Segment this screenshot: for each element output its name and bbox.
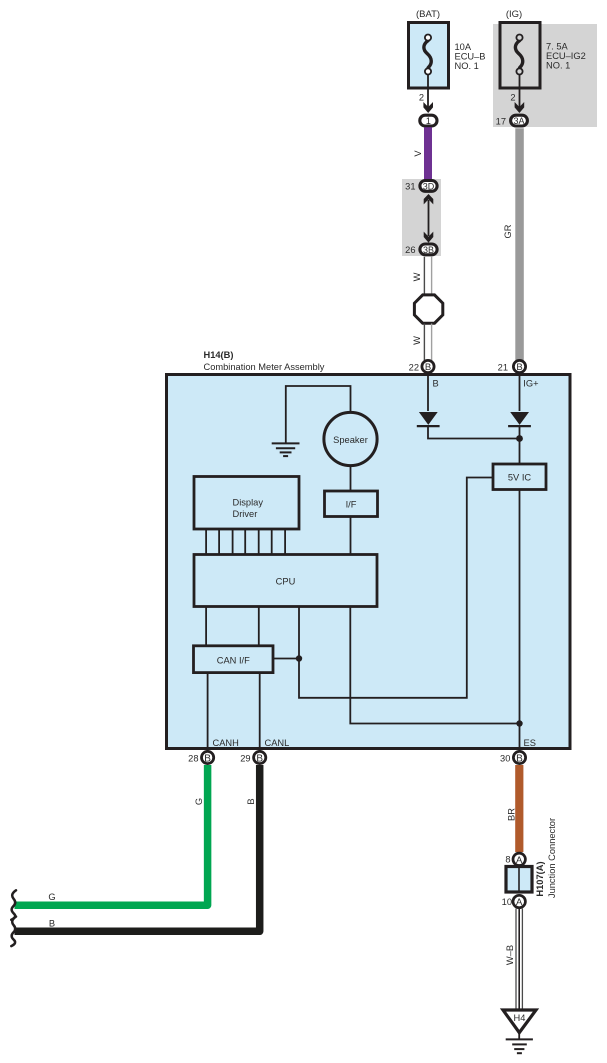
wire CAN I/F to pin 29 — [259, 673, 261, 751]
wire W (white) from 3B to octagon joint — [424, 257, 431, 296]
svg-text:GR: GR — [503, 224, 513, 238]
wire pin22 to diode D1 — [427, 374, 429, 411]
svg-text:G: G — [194, 798, 204, 805]
junction node J3 — [296, 655, 302, 661]
svg-text:A: A — [516, 855, 523, 866]
svg-text:W: W — [412, 336, 422, 345]
arrowhead down toward 3B — [424, 232, 434, 243]
diode D1 (from pin 22) — [417, 412, 440, 426]
svg-text:29: 29 — [240, 754, 250, 764]
svg-text:W: W — [412, 272, 422, 281]
svg-text:10: 10 — [502, 897, 512, 907]
pin 10 connector circle A — [513, 895, 525, 907]
svg-text:(IG): (IG) — [506, 9, 522, 20]
5V IC block — [493, 464, 546, 490]
connector 1 (oval) — [420, 115, 437, 126]
svg-text:I/F: I/F — [346, 500, 357, 510]
wire from BAT fuse to connector 1 — [427, 75, 429, 108]
svg-text:B: B — [204, 753, 211, 764]
wire W-B (white-black) from pin 10 to ground — [516, 909, 522, 1010]
gray highlight block around connectors 3D/3B — [402, 179, 441, 256]
svg-text:22: 22 — [409, 363, 419, 373]
svg-text:5V IC: 5V IC — [508, 473, 532, 483]
svg-text:2: 2 — [510, 93, 515, 103]
wire H4 apex to ground — [518, 1031, 520, 1039]
svg-text:31: 31 — [405, 182, 415, 192]
wire from IG fuse to connector 3A — [519, 75, 521, 108]
wire GR (gray) from 3A to pin 21 — [515, 128, 524, 361]
CAN I/F block — [194, 646, 274, 673]
svg-text:(BAT): (BAT) — [416, 9, 440, 20]
fuse F2 7.5A ECU-IG2 NO.1 (IG) — [500, 23, 540, 89]
svg-text:NO. 1: NO. 1 — [455, 61, 479, 71]
speaker — [324, 412, 377, 465]
pin 29 connector circle B — [254, 751, 266, 763]
wire V (violet) from connector 1 to 3D — [424, 127, 432, 180]
svg-text:3B: 3B — [423, 245, 434, 255]
svg-text:30: 30 — [500, 754, 510, 764]
svg-text:G: G — [48, 892, 55, 902]
svg-text:2: 2 — [419, 93, 424, 103]
pin 28 connector circle B — [202, 751, 214, 763]
svg-text:7. 5A: 7. 5A — [546, 42, 569, 52]
svg-text:8: 8 — [505, 855, 510, 865]
pin 21 connector circle B — [513, 360, 525, 372]
svg-text:3D: 3D — [423, 181, 435, 191]
svg-text:ECU–B: ECU–B — [455, 52, 486, 62]
svg-text:28: 28 — [188, 754, 198, 764]
svg-text:ECU–IG2: ECU–IG2 — [546, 51, 586, 61]
arrowhead into connector 3A — [515, 102, 525, 113]
wire CAN I/F to pin 28 — [207, 673, 209, 751]
ground (speaker) — [272, 443, 300, 456]
svg-text:B: B — [256, 753, 263, 764]
wire I/F to CPU — [350, 517, 352, 556]
fuse F1 10A ECU-B NO.1 (BAT) — [409, 23, 449, 89]
ground symbol (bottom) — [506, 1039, 533, 1053]
wire CPU to CAN I/F (left) — [205, 607, 207, 647]
wire diode D1 to node J1 — [428, 427, 520, 439]
junction node J1 — [516, 435, 523, 442]
svg-text:17: 17 — [496, 117, 506, 127]
wire CPU to CAN I/F (right) — [258, 607, 260, 647]
Display Driver block — [194, 477, 299, 530]
svg-text:BR: BR — [507, 808, 517, 821]
break symbol (black wire) — [11, 917, 16, 947]
svg-text:1: 1 — [426, 116, 431, 126]
svg-text:H14(B): H14(B) — [204, 350, 234, 360]
connector 3A (oval) — [511, 115, 528, 126]
wire diode D2 to 5V IC — [519, 427, 521, 464]
svg-text:V: V — [413, 150, 423, 157]
svg-text:Combination Meter Assembly: Combination Meter Assembly — [204, 362, 325, 372]
wire pin21 to diode D2 — [519, 374, 521, 411]
svg-text:A: A — [516, 897, 523, 908]
svg-text:26: 26 — [405, 245, 415, 255]
connector 3D (oval) — [420, 181, 437, 192]
svg-text:NO. 1: NO. 1 — [546, 61, 570, 71]
wire between 3D and 3B — [428, 200, 430, 236]
wire B (black) CANL from pin 29 — [15, 765, 260, 931]
svg-text:CPU: CPU — [276, 576, 296, 586]
break symbol (green wire) — [11, 890, 16, 920]
pin 8 connector circle A — [513, 853, 525, 865]
svg-text:B: B — [246, 798, 256, 804]
svg-text:Speaker: Speaker — [333, 435, 368, 445]
gray highlight block around IG fuse — [493, 24, 597, 127]
wire BR (brown) ES from pin 30 — [515, 765, 523, 852]
connector 3B (oval) — [420, 244, 437, 255]
svg-text:CANL: CANL — [265, 738, 290, 748]
svg-text:W–B: W–B — [505, 945, 515, 965]
svg-text:IG+: IG+ — [523, 378, 538, 388]
svg-text:H107(A): H107(A) — [535, 861, 545, 896]
octagon splice joint — [414, 295, 442, 323]
bus wires Display Driver to CPU — [206, 529, 285, 555]
I/F block — [325, 491, 378, 517]
combination meter assembly box H14(B) — [167, 375, 571, 749]
ground point H4 (triangle) — [503, 1010, 536, 1033]
wire speaker ground loop — [286, 386, 351, 443]
wire CAN I/F to node J3 — [273, 658, 299, 660]
svg-text:B: B — [433, 378, 439, 388]
wire CPU to ES net (routed) — [350, 607, 519, 724]
svg-text:B: B — [516, 362, 522, 373]
pin 30 connector circle B — [513, 751, 525, 763]
svg-text:Display: Display — [233, 498, 264, 508]
svg-text:CANH: CANH — [213, 738, 239, 748]
arrowhead up toward 3D — [424, 194, 434, 204]
wire 5V IC to pin 30 (ES) — [519, 490, 521, 754]
junction node J2 on ES wire — [516, 720, 522, 726]
svg-text:21: 21 — [498, 363, 508, 373]
svg-text:CAN I/F: CAN I/F — [217, 655, 250, 665]
svg-text:3A: 3A — [513, 116, 524, 126]
diode D2 (from pin 21) — [508, 412, 531, 426]
svg-text:ES: ES — [524, 738, 536, 748]
svg-text:Junction Connector: Junction Connector — [547, 818, 557, 898]
svg-text:B: B — [49, 918, 55, 928]
svg-text:H4: H4 — [514, 1013, 526, 1023]
svg-text:10A: 10A — [455, 42, 472, 52]
svg-text:B: B — [425, 362, 431, 373]
arrowhead into connector 1 — [423, 102, 433, 113]
CPU block — [194, 555, 377, 607]
wire speaker to I/F — [350, 466, 352, 491]
pin 22 connector circle B — [422, 360, 434, 372]
wire W (white) from octagon to pin 22 — [424, 324, 431, 362]
junction connector H107(A) — [506, 867, 532, 893]
svg-text:Driver: Driver — [233, 509, 258, 519]
wire G (green) CANH from pin 28 — [15, 765, 208, 905]
wire CPU to 5V IC (routed) — [299, 478, 493, 698]
svg-text:B: B — [516, 753, 523, 764]
